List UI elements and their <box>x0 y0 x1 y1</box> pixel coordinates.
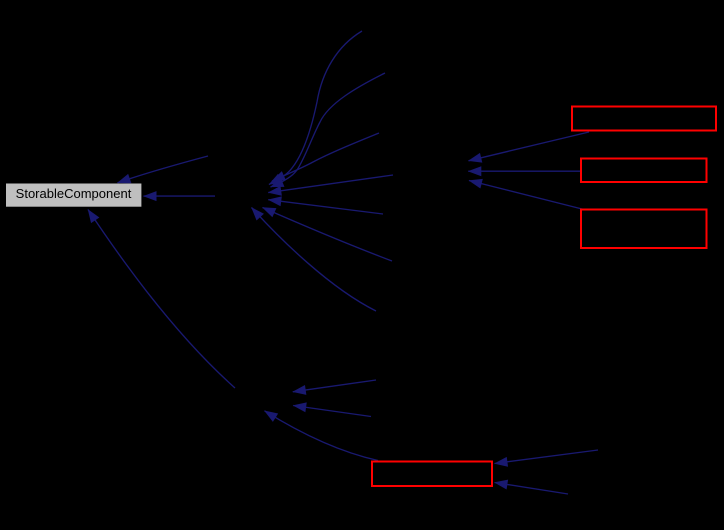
svg-text:StorableComponent: StorableComponent <box>16 186 132 201</box>
